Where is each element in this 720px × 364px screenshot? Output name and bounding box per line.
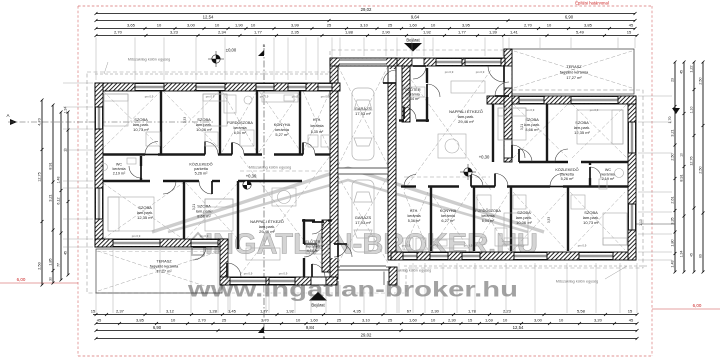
svg-text:10: 10 [431,23,436,28]
svg-text:25: 25 [327,23,332,28]
wall right unit east [628,96,636,260]
svg-text:pm 0,9: pm 0,9 [464,244,473,248]
svg-text:15: 15 [468,318,473,323]
svg-text:12,54: 12,54 [513,325,524,330]
window [256,83,274,91]
svg-text:pm 0,9: pm 0,9 [200,234,209,238]
window [288,83,306,91]
terrace right (TERASZ) [512,49,634,94]
svg-text:pm 0,9: pm 0,9 [516,244,525,248]
svg-text:2,35: 2,35 [291,30,300,35]
svg-text:2,90: 2,90 [382,30,391,35]
interior walls right unit [399,68,628,251]
level marker ±0,00 [208,48,237,68]
svg-text:SZOBAlam.park.10,06 m²: SZOBAlam.park.10,06 m² [196,117,213,132]
roof eaves dashed outline [87,50,643,293]
door [193,247,206,260]
furniture [101,81,628,260]
car top garage [352,88,374,160]
red property boundary dashed [78,6,652,356]
door [163,181,176,194]
svg-text:2,70: 2,70 [524,23,533,28]
door [303,143,315,155]
svg-text:1,77: 1,77 [254,30,263,35]
svg-text:1,43: 1,43 [671,260,675,267]
svg-text:2,50: 2,50 [699,166,703,173]
svg-text:B: B [263,43,266,48]
svg-text:3,85: 3,85 [136,318,145,323]
svg-text:1,77: 1,77 [458,30,467,35]
svg-text:10: 10 [251,23,256,28]
svg-text:25: 25 [388,23,393,28]
window [628,122,636,153]
door [519,149,532,162]
garage divider [338,168,388,174]
door [495,82,509,96]
svg-text:10: 10 [559,318,564,323]
svg-text:10: 10 [296,318,301,323]
svg-text:Műszakilag külön egység: Műszakilag külön egység [249,166,291,170]
svg-text:3,33: 3,33 [183,117,187,123]
door [488,66,504,82]
interior dim line right [630,223,675,225]
svg-text:1,34: 1,34 [680,251,684,258]
svg-text:23: 23 [671,78,675,82]
svg-text:6,90: 6,90 [565,15,574,20]
window [196,83,225,91]
terrace left (TERASZ) [96,249,222,293]
svg-text:1,78: 1,78 [468,309,477,314]
window [135,83,164,91]
svg-text:10: 10 [171,318,176,323]
window [269,277,295,285]
svg-text:3,70: 3,70 [261,318,270,323]
svg-text:pm 0,9: pm 0,9 [279,272,288,276]
dimension rows bottom [91,309,639,340]
svg-text:45: 45 [680,70,684,74]
svg-text:3,65: 3,65 [127,23,136,28]
svg-text:1,28: 1,28 [209,309,218,314]
entry vestibule bottom [337,267,391,285]
terrace eaves dashed right [512,89,634,91]
svg-text:10: 10 [503,318,508,323]
svg-text:SZOBAlam.park.12,35 m²: SZOBAlam.park.12,35 m² [137,205,154,220]
svg-text:2,37: 2,37 [116,309,125,314]
door [129,166,141,178]
svg-text:45: 45 [97,318,102,323]
svg-text:pm 0,9: pm 0,9 [206,95,215,99]
svg-text:45: 45 [64,251,68,255]
svg-text:1,85: 1,85 [49,258,53,265]
svg-text:2,61: 2,61 [671,196,675,203]
entry door opening bottom [311,278,326,285]
svg-text:1,88: 1,88 [345,30,354,35]
svg-text:pm 0,9: pm 0,9 [260,95,269,99]
svg-text:3,21: 3,21 [192,204,196,210]
wall left unit south [95,239,228,247]
svg-text:2,50: 2,50 [38,262,42,269]
svg-text:2,23: 2,23 [503,309,512,314]
svg-text:5,49: 5,49 [576,30,585,35]
svg-text:10: 10 [680,153,684,157]
svg-text:B: B [263,335,266,340]
dimension rows top [95,7,639,37]
extension lines [63,38,672,314]
room diagonal marks [98,51,632,291]
door [205,142,218,155]
red line right 6,00 [652,308,720,310]
door [145,142,158,155]
svg-text:1,60: 1,60 [409,318,418,323]
svg-text:1,60: 1,60 [409,23,418,28]
svg-text:pm 0,9: pm 0,9 [132,234,141,238]
svg-text:45: 45 [690,253,694,257]
svg-text:SZOBAlam.park.12,35 m²: SZOBAlam.park.12,35 m² [574,120,591,135]
section B bottom marker [258,326,264,333]
svg-text:25: 25 [388,318,393,323]
svg-text:3,85: 3,85 [584,23,593,28]
svg-text:6,00: 6,00 [17,277,26,282]
svg-text:29,02: 29,02 [361,7,372,12]
svg-text:ELŐTÉRkerámia4,64 m²: ELŐTÉRkerámia4,64 m² [305,239,320,253]
window [95,188,103,219]
svg-text:GARÁZS17,93 m²: GARÁZS17,93 m² [355,215,372,225]
window [430,252,448,260]
terrace doors [389,69,396,83]
wall left unit south jog [220,239,228,285]
svg-text:67: 67 [407,309,412,314]
window [403,252,417,260]
svg-text:Építési határvonal: Építési határvonal [575,1,609,6]
door [471,175,483,187]
watermark house icon [189,233,207,255]
door [512,145,525,158]
svg-text:pm 0,9: pm 0,9 [321,95,330,99]
svg-text:KONYHAkerámia5,27 m²: KONYHAkerámia5,27 m² [274,122,291,137]
door [555,149,568,162]
window [113,239,160,247]
svg-text:pm 0,9: pm 0,9 [476,70,485,74]
wall right unit nappali north [396,58,505,66]
svg-text:10: 10 [547,23,552,28]
door nappali-szoba right [505,139,512,158]
svg-text:SZOBAlam.park.10,06 m²: SZOBAlam.park.10,06 m² [516,210,533,225]
wall garage east column [388,58,396,260]
window [628,204,636,230]
svg-text:SZOBAlam.park.10,73 m²: SZOBAlam.park.10,73 m² [583,210,600,225]
wall right unit south [391,252,636,260]
door [550,174,563,187]
window [191,239,218,247]
svg-text:6,90: 6,90 [153,325,162,330]
section A marker left [10,119,17,125]
unit separation dashed line bottom-right [404,265,648,267]
window [436,58,462,66]
open-plan boundary dashed left [240,170,330,172]
window [462,252,480,260]
open-plan boundary dashed right [404,176,490,178]
door [199,181,212,194]
svg-text:15: 15 [628,309,633,314]
door [383,70,396,83]
svg-text:1,10: 1,10 [690,107,694,114]
window [95,107,103,129]
svg-text:2,50: 2,50 [699,77,703,84]
car bottom garage [352,180,374,252]
svg-text:SZOBAlam.park.8,66 m²: SZOBAlam.park.8,66 m² [196,204,212,219]
svg-text:pm 0,9: pm 0,9 [244,272,253,276]
svg-text:1,77: 1,77 [260,309,269,314]
door [232,143,244,155]
svg-text:12,54: 12,54 [203,15,214,20]
svg-text:3,00: 3,00 [187,23,196,28]
wall right unit north jog west wall [504,49,512,162]
garage gate bottom [340,265,386,272]
wall garage west column [330,58,338,279]
svg-text:25: 25 [222,318,227,323]
section B top marker [258,50,264,56]
window [318,83,332,91]
svg-text:12,76: 12,76 [690,156,694,165]
door [495,174,508,187]
svg-text:9,64: 9,64 [411,15,420,20]
door [312,222,324,234]
door [404,175,416,187]
svg-text:45: 45 [629,318,634,323]
svg-text:8,91: 8,91 [49,162,53,169]
window [465,58,501,66]
door [427,84,440,97]
door [413,66,426,79]
dimension column right [630,61,705,274]
svg-text:pm 0,9: pm 0,9 [578,244,587,248]
svg-text:3,10: 3,10 [362,318,371,323]
wall right unit north [487,96,636,104]
svg-text:2,70: 2,70 [198,318,207,323]
window [514,252,547,260]
svg-text:3,35: 3,35 [671,217,675,224]
svg-text:GARÁZS17,93 m²: GARÁZS17,93 m² [355,106,372,116]
svg-text:45: 45 [629,23,634,28]
svg-text:1,69: 1,69 [485,318,494,323]
svg-text:4,35: 4,35 [353,309,362,314]
entry door top (right unit) [412,59,424,66]
svg-text:pm 0,9: pm 0,9 [145,95,154,99]
svg-text:6,00: 6,00 [693,303,702,308]
svg-text:Műszakilag külön egység: Műszakilag külön egység [556,280,598,284]
svg-text:3,23: 3,23 [170,30,179,35]
svg-text:3,21: 3,21 [49,194,53,201]
svg-text:ELŐTÉRkerámia4,64 m²: ELŐTÉRkerámia4,64 m² [405,87,420,101]
watermark roof [152,168,544,232]
wall left unit nappali south [220,277,337,285]
svg-text:10: 10 [431,318,436,323]
svg-text:pm 0,9: pm 0,9 [430,244,439,248]
svg-text:2,34: 2,34 [218,30,227,35]
svg-text:3,12: 3,12 [166,309,175,314]
svg-text:3,21: 3,21 [520,124,524,130]
wall garage south post [389,267,397,285]
svg-text:2,50: 2,50 [671,153,675,160]
garage gate top [340,59,386,66]
svg-text:1,92: 1,92 [423,30,432,35]
svg-text:1,45: 1,45 [228,309,237,314]
window [519,96,544,104]
section B line [263,48,265,334]
svg-text:2,30: 2,30 [431,309,440,314]
level marker +0,30 right [460,155,490,181]
wall left unit west [95,83,103,247]
svg-text:3,00: 3,00 [534,318,543,323]
svg-text:KONYHAkerámia6,27 m²: KONYHAkerámia6,27 m² [440,208,457,223]
svg-text:+0,30: +0,30 [479,155,490,160]
door [227,263,241,277]
svg-text:A: A [6,113,9,118]
svg-text:SZOBAlam.park.10,73 m²: SZOBAlam.park.10,73 m² [133,117,150,132]
door [312,264,325,277]
section A marker right [672,108,680,114]
svg-text:12,75: 12,75 [38,172,42,182]
svg-text:1,60: 1,60 [310,318,319,323]
unit separation dashed line top-left [95,73,330,75]
svg-text:Bejárat: Bejárat [406,38,420,43]
svg-text:89: 89 [699,254,703,258]
door [338,243,352,257]
svg-text:8,91: 8,91 [680,174,684,181]
window [571,96,618,104]
svg-text:1,34: 1,34 [64,107,68,114]
svg-text:10: 10 [215,23,220,28]
svg-text:10: 10 [157,23,162,28]
svg-text:1,90: 1,90 [235,23,244,28]
svg-text:15: 15 [91,309,96,314]
red line left 6,00 [0,282,78,284]
svg-text:6,12: 6,12 [57,197,61,204]
svg-text:Bejárat: Bejárat [311,303,325,308]
svg-text:+0,30: +0,30 [246,174,257,179]
svg-text:3,99: 3,99 [291,23,300,28]
svg-text:1,41: 1,41 [510,30,519,35]
svg-text:2,30: 2,30 [448,318,457,323]
door [304,244,317,257]
svg-text:3,20: 3,20 [594,318,603,323]
svg-text:1,92: 1,92 [286,309,295,314]
wall elotér west right [402,66,410,122]
svg-text:30: 30 [49,277,53,281]
svg-text:29,02: 29,02 [361,333,372,338]
svg-text:1,22: 1,22 [690,65,694,72]
door [590,167,601,178]
svg-text:±0,00: ±0,00 [226,48,237,53]
svg-text:pm 0,9: pm 0,9 [526,108,535,112]
wall left unit north [95,83,340,91]
svg-text:3,21: 3,21 [671,129,675,136]
svg-text:9,84: 9,84 [306,325,315,330]
svg-text:1,39: 1,39 [489,30,498,35]
door nappali-terrace right through jog [505,66,512,88]
svg-text:1,48: 1,48 [57,177,61,184]
wall elotér east left [322,220,330,272]
svg-text:1,70: 1,70 [668,117,672,124]
svg-text:pm 0,9: pm 0,9 [445,70,454,74]
level marker +0,30 left [243,174,257,190]
svg-text:5,58: 5,58 [577,309,586,314]
svg-text:2,70: 2,70 [114,30,123,35]
svg-text:3,33: 3,33 [547,217,551,223]
svg-text:3,10: 3,10 [360,23,369,28]
door [334,244,347,257]
wall garage north [330,58,397,66]
parapet labels pm 0,9 [132,70,599,276]
window [230,277,266,285]
svg-text:1,80: 1,80 [671,239,675,246]
terrace eaves dashed left [96,251,222,253]
interior walls left unit [103,91,332,277]
svg-text:77: 77 [57,263,61,267]
svg-text:25: 25 [337,318,342,323]
svg-text:3,95: 3,95 [462,23,471,28]
svg-text:15: 15 [627,30,632,35]
window [579,252,613,260]
svg-text:1,10: 1,10 [639,219,643,226]
door [404,107,416,119]
dimension column left [6,99,213,287]
